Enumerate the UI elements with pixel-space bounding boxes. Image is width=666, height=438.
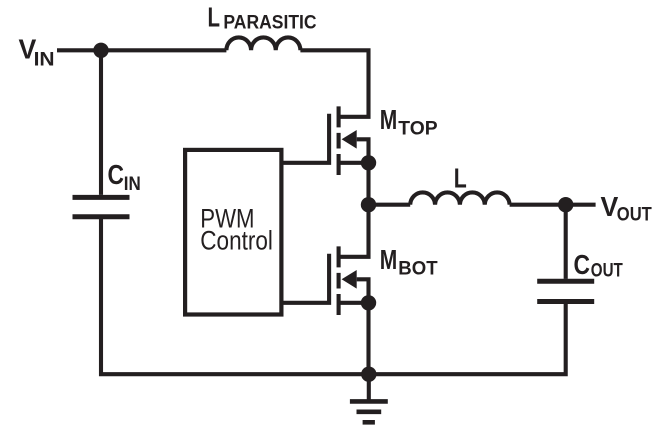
ground bar 3 [363,420,375,425]
wire inductor L to VOUT [510,203,596,207]
wire top rail right segment down to MTOP drain [300,50,368,117]
transistor MBOT body diode arrow [342,270,357,289]
node switch junction dot [361,197,376,212]
transistor MBOT source wire [339,301,369,305]
svg-text:OUT: OUT [617,205,652,226]
transistor MTOP channel bar segments [337,106,341,175]
ground stem [367,374,371,401]
svg-text:IN: IN [124,174,141,195]
capacitor COUT top plate [537,279,594,284]
svg-text:L: L [454,162,467,193]
capacitor CIN top plate [73,195,130,200]
wire top rail from VIN to Lparasitic [57,48,226,52]
svg-text:TOP: TOP [398,119,438,140]
svg-text:OUT: OUT [591,261,623,282]
transistor MTOP body diode arrow [342,130,357,149]
wire MBOT body tap down to ground rail [357,279,369,374]
svg-text:IN: IN [34,50,55,71]
capacitor COUT bottom plate [537,299,594,304]
svg-text:Control: Control [200,225,273,255]
wire CIN branch from VIN node to top plate [99,50,103,195]
capacitor CIN bottom plate [73,214,130,219]
node MTOP source junction dot [361,155,376,170]
node VIN junction dot [93,43,108,58]
wire COUT branch from VOUT node [564,205,568,279]
inductor LPARASITIC [226,37,300,50]
svg-text:PARASITIC: PARASITIC [223,13,316,34]
svg-text:L: L [208,1,221,32]
inductor L [410,192,509,204]
node VOUT junction dot [558,197,573,212]
node ground rail junction dot [361,367,376,382]
svg-text:BOT: BOT [398,259,438,280]
transistor MTOP source wire [339,161,369,165]
svg-text:C: C [574,249,591,280]
wire MTOP gate to PWM box [283,114,329,163]
svg-text:C: C [108,159,125,190]
wire MTOP body tap down through switch node to MBOT drain [339,139,369,256]
wire CIN bottom to ground rail and bottom rail to COUT [101,219,566,374]
wire MBOT gate to PWM box [283,254,329,303]
ground bar 2 [357,409,382,414]
svg-text:M: M [380,104,398,135]
wire switch node to inductor L [369,203,411,207]
box PWM Control [185,150,281,315]
ground bar 1 [350,399,388,404]
transistor MBOT channel bar segments [337,246,341,315]
svg-text:M: M [380,244,398,275]
node MBOT source junction dot [361,295,376,310]
